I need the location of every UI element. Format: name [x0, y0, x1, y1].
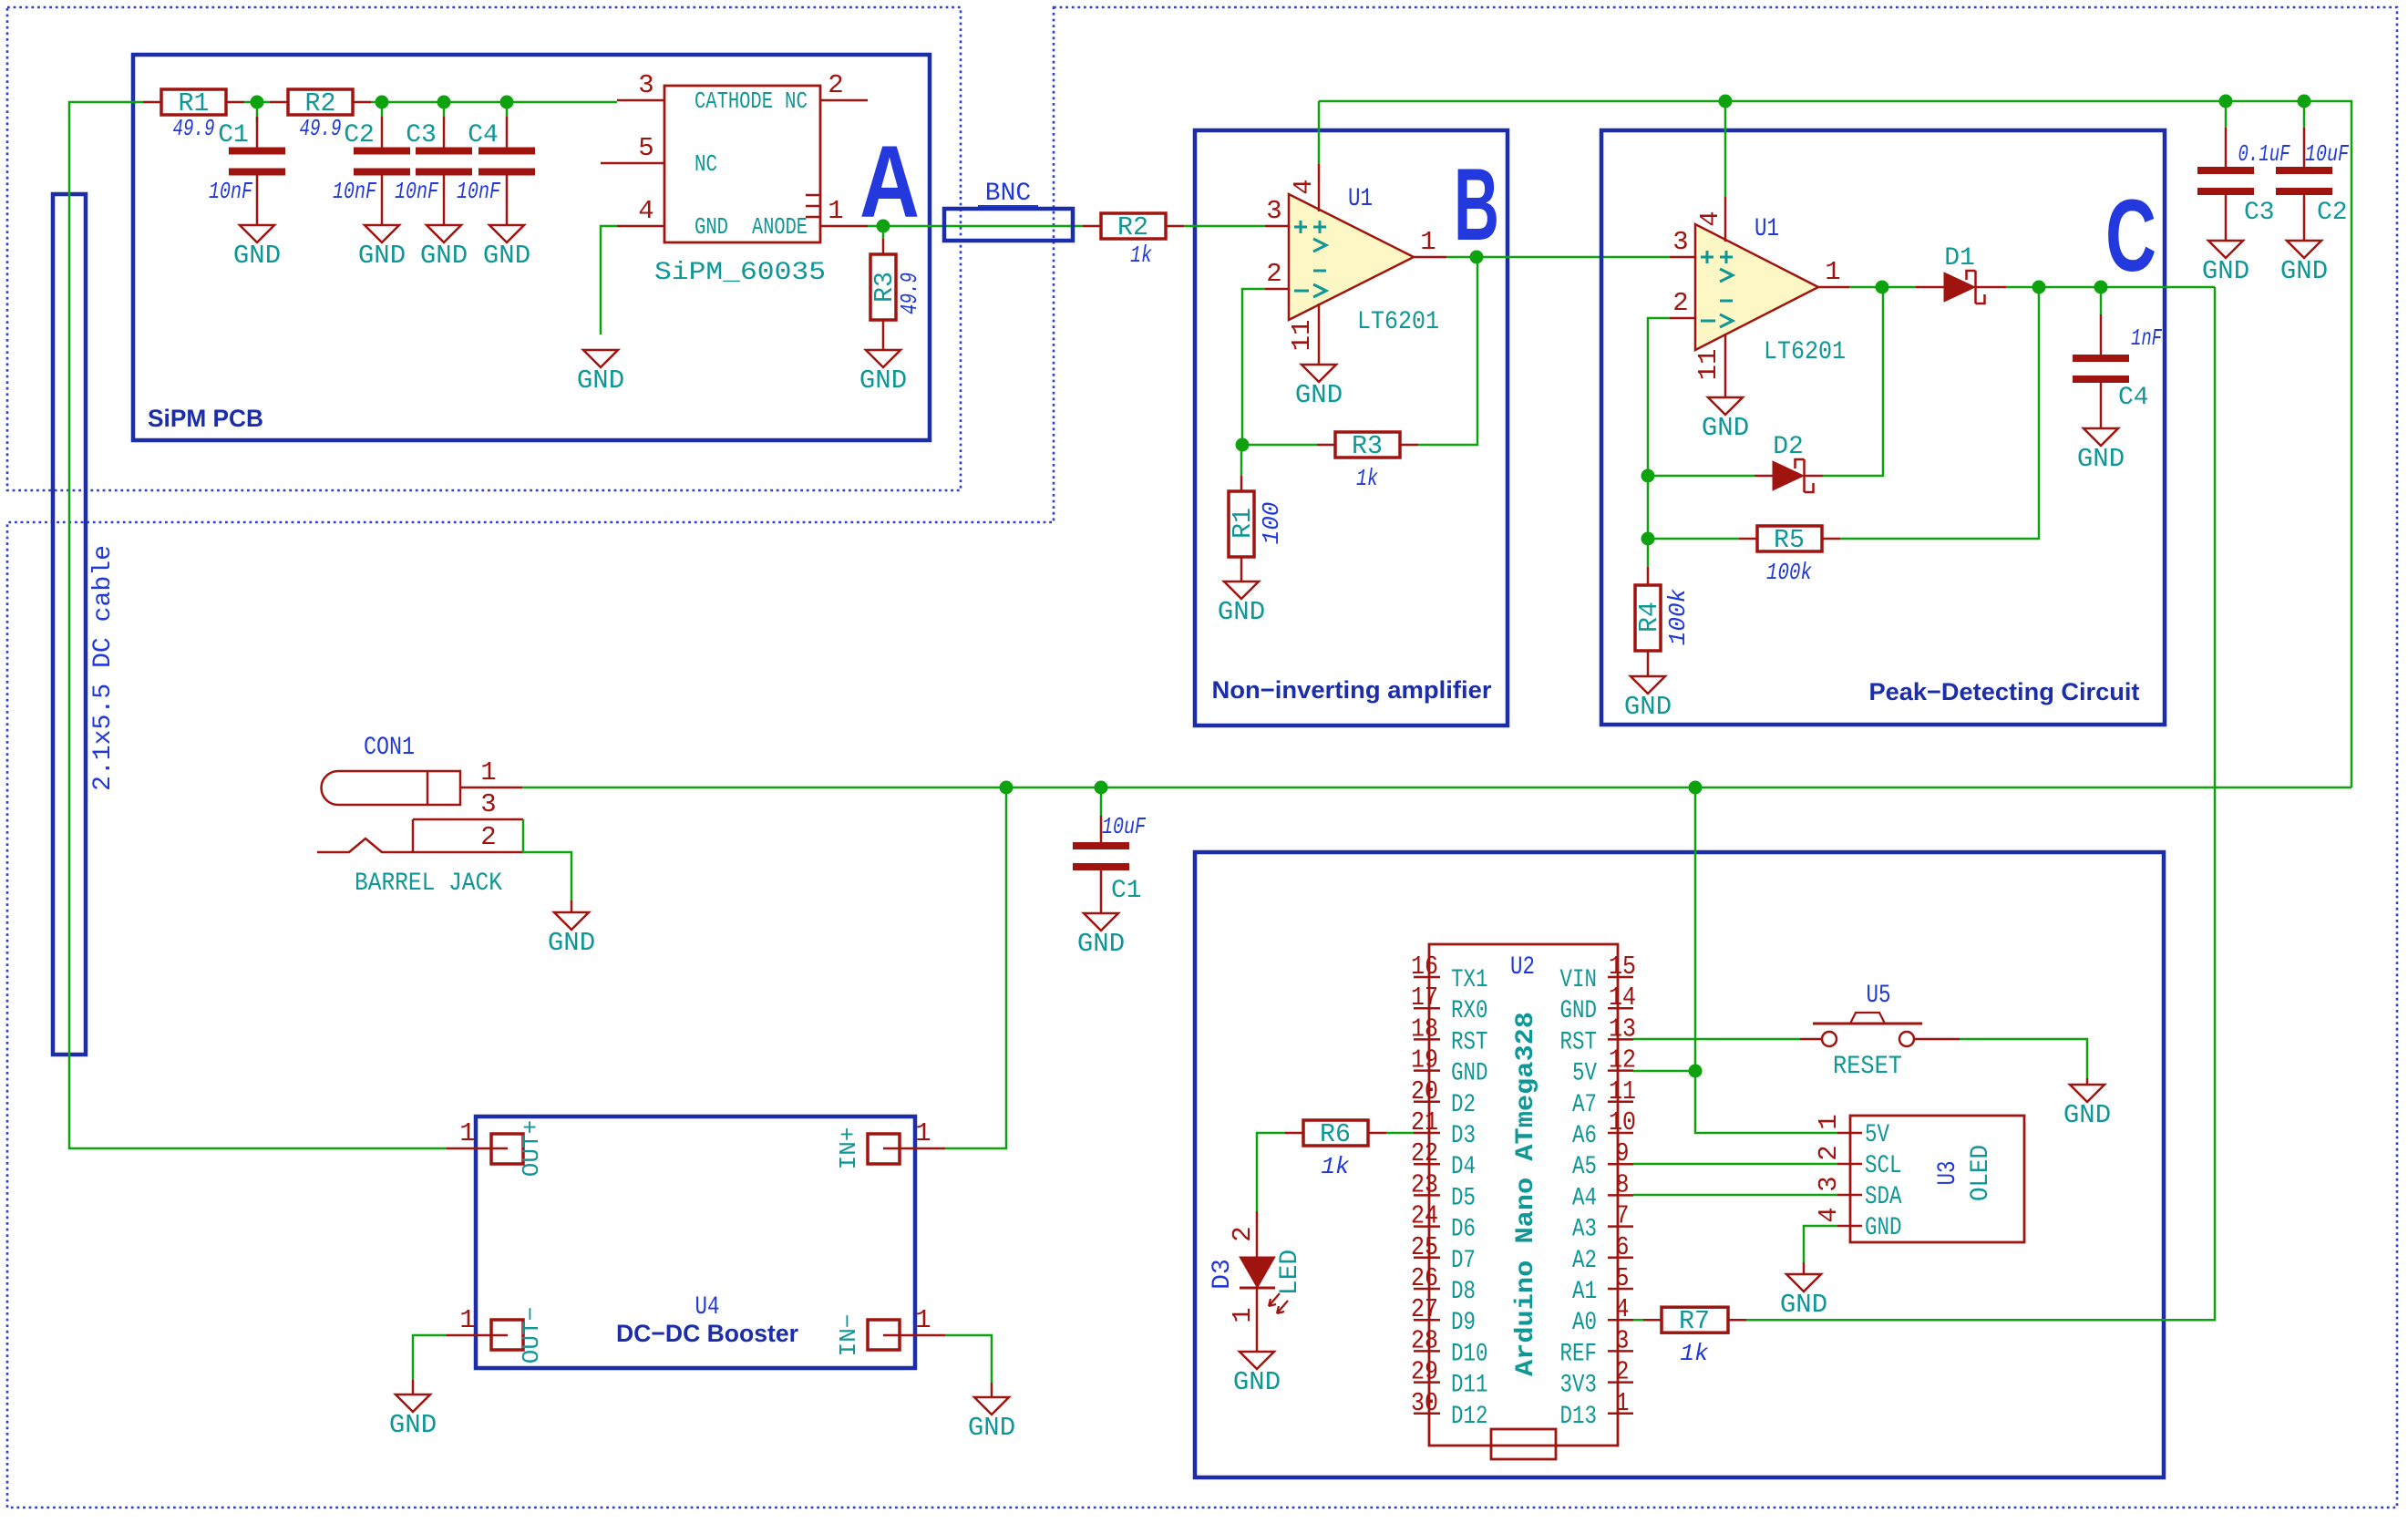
svg-text:19: 19 [1411, 1045, 1438, 1075]
svg-text:D10: D10 [1451, 1340, 1488, 1368]
svg-text:Non−inverting amplifier: Non−inverting amplifier [1212, 676, 1492, 704]
op-amp input + marker [1294, 221, 1307, 233]
svg-text:D6: D6 [1451, 1216, 1476, 1244]
pin 1 output lead [1414, 256, 1446, 259]
junction peak out node [1876, 281, 1889, 294]
U2 pin 24 lead [1414, 1225, 1440, 1228]
capacitor C1 10uF [1100, 816, 1103, 842]
svg-text:D4: D4 [1451, 1153, 1476, 1181]
wire R3 bottom stem [882, 320, 885, 350]
U2 pin 30 lead [1414, 1413, 1440, 1415]
ground OUT- [396, 1394, 430, 1412]
peak op V+ marker [1720, 251, 1733, 263]
svg-text:3: 3 [1814, 1176, 1844, 1191]
svg-text:RST: RST [1560, 1028, 1598, 1056]
pin 2 lead [1265, 288, 1289, 291]
svg-text:OLED: OLED [1967, 1145, 1995, 1201]
wire IN- gnd stem [991, 1383, 993, 1397]
svg-text:1k: 1k [1321, 1153, 1350, 1180]
U2 pin 8 lead [1608, 1194, 1633, 1197]
capacitor C4 1nF [2100, 314, 2103, 355]
svg-text:OUT−: OUT− [518, 1307, 545, 1363]
ground OLED [1786, 1274, 1821, 1291]
Arduino enclosure [1195, 852, 2164, 1477]
svg-text:1nF: 1nF [2131, 324, 2162, 352]
svg-text:Arduino Nano ATmega328: Arduino Nano ATmega328 [1512, 1012, 1540, 1376]
IN+ pin square [868, 1134, 900, 1164]
svg-text:GND: GND [695, 213, 728, 241]
svg-text:GND: GND [1560, 997, 1598, 1025]
U2 pin 14 lead [1608, 1007, 1633, 1010]
pin 4 GND lead [617, 225, 664, 228]
peak op input + marker [1701, 251, 1713, 263]
svg-text:CON1: CON1 [364, 734, 415, 762]
U2 pin 9 lead [1608, 1163, 1633, 1166]
wire peak V+ riser [1724, 101, 1727, 197]
OUT+ pin lead [447, 1147, 491, 1150]
OUT+ pin square [491, 1134, 523, 1164]
svg-text:1: 1 [1228, 1307, 1258, 1322]
capacitor C2 [381, 117, 384, 148]
svg-text:GND: GND [2063, 1100, 2111, 1130]
svg-text:GND: GND [1451, 1060, 1488, 1088]
svg-text:IN+: IN+ [835, 1127, 862, 1170]
U2 pin 15 lead [1608, 976, 1633, 979]
svg-text:12: 12 [1609, 1045, 1636, 1075]
wire C2 stem (right) [2303, 101, 2306, 128]
svg-text:A7: A7 [1572, 1091, 1597, 1119]
OLED pin 3 lead [1837, 1194, 1862, 1197]
capacitor C2 10uF [2303, 128, 2306, 167]
wire C4 stem [506, 102, 509, 117]
svg-text:U1: U1 [1348, 185, 1373, 213]
wire node C to R7 [1746, 287, 2215, 1320]
peak op V- marker [1701, 320, 1715, 323]
svg-text:BARREL JACK: BARREL JACK [355, 870, 502, 898]
svg-text:GND: GND [358, 241, 406, 271]
svg-text:GND: GND [233, 241, 281, 271]
OLED pin 4 lead [1837, 1225, 1862, 1228]
U2 pin 3 lead [1608, 1350, 1633, 1353]
capacitor C4 [506, 117, 509, 148]
resistor R3 1k feedback [1242, 444, 1317, 447]
wire IN+ riser [945, 787, 1006, 1148]
svg-text:1: 1 [480, 757, 496, 787]
peak pin 2 lead [1670, 317, 1695, 320]
svg-text:GND: GND [420, 241, 468, 271]
svg-text:A0: A0 [1572, 1309, 1597, 1337]
wire R2 right [270, 101, 288, 104]
svg-text:5: 5 [1616, 1263, 1630, 1293]
svg-text:2: 2 [480, 822, 496, 852]
barrel jack pin 1 lead [460, 787, 522, 789]
ground R1 [1224, 581, 1259, 599]
U2 pin 13 lead [1608, 1038, 1633, 1041]
svg-text:D3: D3 [1451, 1122, 1476, 1150]
svg-text:1: 1 [915, 1305, 931, 1335]
BNC connector box [944, 209, 1073, 241]
svg-text:LT6201: LT6201 [1357, 308, 1439, 336]
junction C2 tap [376, 96, 389, 109]
svg-text:NC: NC [695, 150, 717, 178]
Peak-Detecting enclosure [1601, 130, 2165, 725]
capacitor C3 0.1uF [2225, 128, 2228, 167]
svg-text:R3: R3 [1352, 431, 1383, 461]
svg-text:LED: LED [1276, 1250, 1304, 1295]
wire R3 top stem [882, 226, 885, 239]
svg-text:6: 6 [1616, 1232, 1630, 1262]
svg-text:26: 26 [1411, 1263, 1438, 1293]
wire A4 to SDA [1633, 1194, 1837, 1197]
ATmega328 symbol body [1429, 944, 1618, 1446]
U2 pin 19 lead [1414, 1069, 1440, 1072]
svg-text:D1: D1 [1944, 244, 1975, 273]
svg-text:29: 29 [1411, 1357, 1438, 1387]
svg-text:D8: D8 [1451, 1278, 1476, 1306]
wire C4 stem (peak) [2100, 287, 2103, 314]
svg-text:10nF: 10nF [333, 178, 376, 205]
ground C1 [240, 225, 274, 242]
svg-text:GND: GND [859, 365, 907, 396]
svg-text:IN−: IN− [835, 1314, 862, 1357]
U2 pin 18 lead [1414, 1038, 1440, 1041]
dashed frame around SiPM PCB region [7, 7, 961, 490]
wire R3 to output [1418, 257, 1477, 445]
svg-text:8: 8 [1616, 1169, 1630, 1199]
U2 pin 7 lead [1608, 1225, 1633, 1228]
wire OUT- to ground [413, 1335, 447, 1380]
svg-text:U5: U5 [1867, 982, 1891, 1010]
junction IN+ riser [1000, 781, 1014, 795]
junction C4 tap (peak) [2094, 281, 2108, 294]
ground LED [1240, 1352, 1274, 1369]
OLED pin 1 lead [1837, 1132, 1862, 1135]
wire R4 bottom [1647, 651, 1650, 676]
wire A5 to SCL [1633, 1163, 1837, 1166]
svg-text:C3: C3 [406, 121, 437, 149]
svg-text:4: 4 [1695, 211, 1725, 226]
pin 11 V- lead [1318, 304, 1321, 365]
svg-text:24: 24 [1411, 1201, 1438, 1231]
svg-text:A: A [859, 125, 920, 239]
svg-text:GND: GND [483, 241, 530, 271]
svg-text:VIN: VIN [1560, 966, 1598, 994]
U2 pin 16 lead [1414, 976, 1440, 979]
ground C3 (right) [2208, 241, 2243, 258]
ground switch [2070, 1085, 2104, 1102]
svg-text:10nF: 10nF [457, 178, 500, 205]
LED D3 pin 1 lead [1256, 1288, 1259, 1352]
pin 4 V+ lead [1318, 164, 1321, 211]
svg-text:U2: U2 [1510, 953, 1535, 982]
wire OLED GND [1804, 1226, 1837, 1262]
svg-text:U4: U4 [695, 1293, 720, 1322]
OUT- pin lead [447, 1334, 491, 1337]
svg-text:4: 4 [1616, 1294, 1630, 1324]
svg-text:SiPM_60035: SiPM_60035 [654, 259, 826, 287]
switch U5 body [1813, 1023, 1922, 1025]
svg-text:R6: R6 [1320, 1119, 1351, 1149]
svg-text:0.1uF: 0.1uF [2238, 140, 2290, 168]
junction 5V node [1689, 1065, 1703, 1078]
pin 3 lead [1265, 225, 1289, 228]
svg-text:GND: GND [1702, 413, 1749, 443]
svg-text:1: 1 [1825, 257, 1840, 287]
svg-text:C4: C4 [468, 121, 499, 149]
svg-text:1k: 1k [1680, 1340, 1709, 1367]
svg-text:1: 1 [828, 196, 843, 226]
diode D1 [1944, 273, 1975, 302]
wire peak out [1849, 286, 1916, 289]
svg-text:2: 2 [1814, 1145, 1844, 1160]
svg-text:A2: A2 [1572, 1247, 1597, 1275]
junction peak V+ tap [1719, 95, 1733, 108]
resistor R1 [161, 89, 226, 115]
svg-text:10: 10 [1609, 1107, 1636, 1137]
svg-text:GND: GND [2202, 256, 2249, 286]
barrel jack capsule [322, 771, 461, 805]
ground C1 10uF [1084, 913, 1118, 931]
resistor R3 [882, 239, 885, 254]
wire R6 to D3 pin [1386, 1132, 1414, 1135]
junction R5 tap [2032, 281, 2046, 294]
wire D2 left [1648, 475, 1755, 478]
peak pin 4 lead [1724, 197, 1727, 242]
svg-text:SiPM PCB: SiPM PCB [148, 405, 263, 432]
svg-text:R5: R5 [1774, 525, 1805, 555]
pin 5 NC lead [601, 162, 664, 165]
resistor R5 100k [1648, 538, 1739, 540]
svg-text:15: 15 [1609, 952, 1636, 982]
svg-text:22: 22 [1411, 1138, 1438, 1168]
svg-text:9: 9 [1616, 1138, 1630, 1168]
svg-text:GND: GND [1780, 1290, 1827, 1320]
svg-text:1: 1 [1814, 1114, 1844, 1129]
ground C2 [365, 225, 399, 242]
U2 pin 25 lead [1414, 1257, 1440, 1260]
svg-text:2.1x5.5 DC cable: 2.1x5.5 DC cable [89, 545, 118, 791]
svg-text:14: 14 [1609, 983, 1636, 1013]
svg-text:49.9: 49.9 [896, 273, 923, 314]
wire node C horizontal [2006, 286, 2215, 289]
wire peak pin2 loop [1648, 318, 1670, 567]
svg-text:3: 3 [1266, 196, 1281, 226]
peak pin 1 lead [1818, 286, 1849, 289]
svg-text:3: 3 [480, 789, 496, 819]
IN+ pin lead [900, 1147, 945, 1150]
junction C1 10uF tap [1095, 781, 1108, 795]
wire C1 stem [256, 102, 259, 123]
resistor R6 1k [1285, 1132, 1303, 1135]
svg-text:B: B [1454, 148, 1499, 262]
wire R6 left [1257, 1133, 1285, 1211]
svg-text:17: 17 [1411, 983, 1438, 1013]
svg-text:11: 11 [1693, 349, 1724, 381]
svg-text:27: 27 [1411, 1294, 1438, 1324]
junction C3 0.1uF tap [2219, 95, 2233, 108]
ground peak V- [1708, 397, 1743, 415]
svg-text:GND: GND [548, 928, 595, 958]
U2 pin 20 lead [1414, 1101, 1440, 1104]
op-amp U1 (peak) body [1695, 224, 1818, 350]
svg-text:GND: GND [1077, 929, 1125, 959]
junction anode/R3 [877, 220, 890, 233]
svg-text:10nF: 10nF [209, 178, 252, 205]
svg-text:C2: C2 [2317, 199, 2348, 227]
pin 2 NC lead [820, 99, 868, 102]
wire C3 stem [443, 102, 446, 117]
resistor R2 1k [1083, 225, 1101, 228]
wire jack gnd stem [571, 900, 573, 912]
svg-text:R7: R7 [1679, 1306, 1710, 1336]
svg-text:16: 16 [1411, 952, 1438, 982]
OLED symbol body [1850, 1116, 2024, 1242]
OUT- pin square [491, 1320, 523, 1350]
svg-text:OUT+: OUT+ [518, 1120, 545, 1177]
svg-text:49.9: 49.9 [173, 115, 215, 142]
svg-text:3V3: 3V3 [1560, 1372, 1598, 1400]
svg-text:D2: D2 [1773, 433, 1804, 461]
capacitor C1 [256, 117, 259, 148]
svg-text:5V: 5V [1865, 1121, 1889, 1149]
svg-text:4: 4 [638, 196, 653, 226]
U2 pin 29 lead [1414, 1381, 1440, 1384]
svg-text:RESET: RESET [1833, 1053, 1902, 1081]
svg-text:GND: GND [1295, 380, 1343, 410]
svg-text:49.9: 49.9 [300, 115, 342, 142]
wire OUT- gnd stem [412, 1380, 415, 1394]
svg-text:D7: D7 [1451, 1247, 1476, 1275]
svg-text:2: 2 [1228, 1226, 1258, 1241]
svg-text:4: 4 [1814, 1207, 1844, 1222]
svg-text:10nF: 10nF [395, 178, 438, 205]
svg-text:100k: 100k [1766, 559, 1812, 586]
svg-text:1k: 1k [1356, 465, 1378, 492]
svg-text:100k: 100k [1664, 588, 1692, 645]
svg-text:SCL: SCL [1865, 1152, 1902, 1180]
diode D2 [1773, 461, 1804, 490]
pin 1 ANODE lead [820, 225, 868, 228]
LED D3 pin 2 lead [1256, 1211, 1259, 1257]
wire node B to peak pin3 [1670, 256, 1695, 259]
U2 pin 12 lead [1608, 1069, 1633, 1072]
wire HV output vertical (OUT+ to R1) [69, 102, 447, 1148]
svg-text:C2: C2 [344, 121, 375, 149]
svg-text:2: 2 [1266, 259, 1281, 289]
power rail mid [522, 787, 2351, 789]
svg-text:C1: C1 [1111, 877, 1142, 905]
svg-text:LT6201: LT6201 [1764, 338, 1846, 366]
svg-text:2: 2 [828, 70, 843, 100]
switch U5 lead left [1800, 1038, 1822, 1041]
U2 pin 5 lead [1608, 1288, 1633, 1291]
wire D2 to out node [1823, 287, 1883, 476]
resistor R7 1k [1633, 1319, 1643, 1322]
wire feedback from pin2 [1242, 289, 1265, 445]
svg-text:11: 11 [1287, 320, 1317, 352]
wire switch gnd stem [2086, 1078, 2089, 1085]
wire IN- to ground [945, 1335, 992, 1383]
svg-text:21: 21 [1411, 1107, 1438, 1137]
svg-text:ANODE: ANODE [752, 213, 808, 241]
svg-text:D3: D3 [1209, 1259, 1237, 1290]
svg-text:100: 100 [1258, 502, 1285, 545]
wire jack pins 2-3 [523, 819, 571, 900]
svg-text:3: 3 [1672, 227, 1688, 257]
wire switch to ground [1960, 1039, 2087, 1078]
svg-text:1: 1 [459, 1305, 475, 1335]
svg-text:28: 28 [1411, 1325, 1438, 1355]
svg-text:18: 18 [1411, 1014, 1438, 1044]
svg-text:GND: GND [1218, 597, 1265, 627]
svg-text:5V: 5V [1572, 1060, 1597, 1088]
svg-text:23: 23 [1411, 1169, 1438, 1199]
svg-text:U1: U1 [1755, 215, 1779, 243]
ground C4 [489, 225, 524, 242]
svg-text:25: 25 [1411, 1232, 1438, 1262]
SiPM anode tick marks [806, 194, 820, 197]
svg-text:RST: RST [1451, 1028, 1488, 1056]
U2 pin 4 lead [1608, 1319, 1633, 1322]
svg-text:GND: GND [968, 1413, 1015, 1443]
svg-text:TX1: TX1 [1451, 966, 1488, 994]
junction 5V riser [1689, 781, 1703, 795]
svg-text:A4: A4 [1572, 1184, 1597, 1212]
ground C3 [427, 225, 461, 242]
op-amp input - marker [1313, 270, 1326, 273]
U2 pin 11 lead [1608, 1101, 1633, 1104]
DC-DC Booster enclosure [476, 1117, 915, 1368]
peak pin 11 lead [1724, 334, 1727, 397]
ground C4 (peak) [2084, 428, 2118, 446]
wire 5V riser/OLED feed [1695, 787, 1837, 1133]
svg-text:R2: R2 [1117, 212, 1148, 242]
pin 3 CATHODE lead [617, 99, 664, 102]
svg-text:A6: A6 [1572, 1122, 1597, 1150]
peak op input - marker [1720, 300, 1733, 303]
ISP tab [1491, 1429, 1556, 1459]
wire OLED gnd stem [1803, 1262, 1806, 1274]
svg-text:1: 1 [1420, 227, 1436, 257]
ground R4 [1631, 676, 1665, 694]
op-amp U1 (non-inverting) body [1289, 194, 1414, 320]
U2 pin 17 lead [1414, 1007, 1440, 1010]
svg-text:1k: 1k [1130, 242, 1152, 269]
svg-text:1: 1 [459, 1118, 475, 1148]
U2 pin 21 lead [1414, 1132, 1440, 1135]
wire R5 to node C [1840, 287, 2039, 539]
U2 pin 23 lead [1414, 1194, 1440, 1197]
junction R5 left tap [1641, 532, 1655, 546]
svg-text:Peak−Detecting Circuit: Peak−Detecting Circuit [1869, 678, 2140, 705]
svg-text:5: 5 [638, 133, 653, 163]
svg-text:GND: GND [1233, 1367, 1281, 1397]
svg-text:CATHODE: CATHODE [695, 87, 773, 115]
OLED pin 2 lead [1837, 1163, 1862, 1166]
U2 pin 27 lead [1414, 1319, 1440, 1322]
svg-text:3: 3 [638, 70, 653, 100]
svg-text:D9: D9 [1451, 1309, 1476, 1337]
svg-text:C4: C4 [2118, 384, 2149, 412]
svg-text:D13: D13 [1560, 1403, 1598, 1431]
svg-text:10uF: 10uF [2305, 140, 2349, 168]
U2 pin 22 lead [1414, 1163, 1440, 1166]
svg-text:NC: NC [785, 87, 808, 115]
wire 5V pin to junction [1633, 1070, 1695, 1073]
node junction R1-R2 (C1 tap) [251, 96, 264, 109]
ground barrel jack [554, 912, 589, 930]
svg-text:GND: GND [577, 365, 624, 396]
